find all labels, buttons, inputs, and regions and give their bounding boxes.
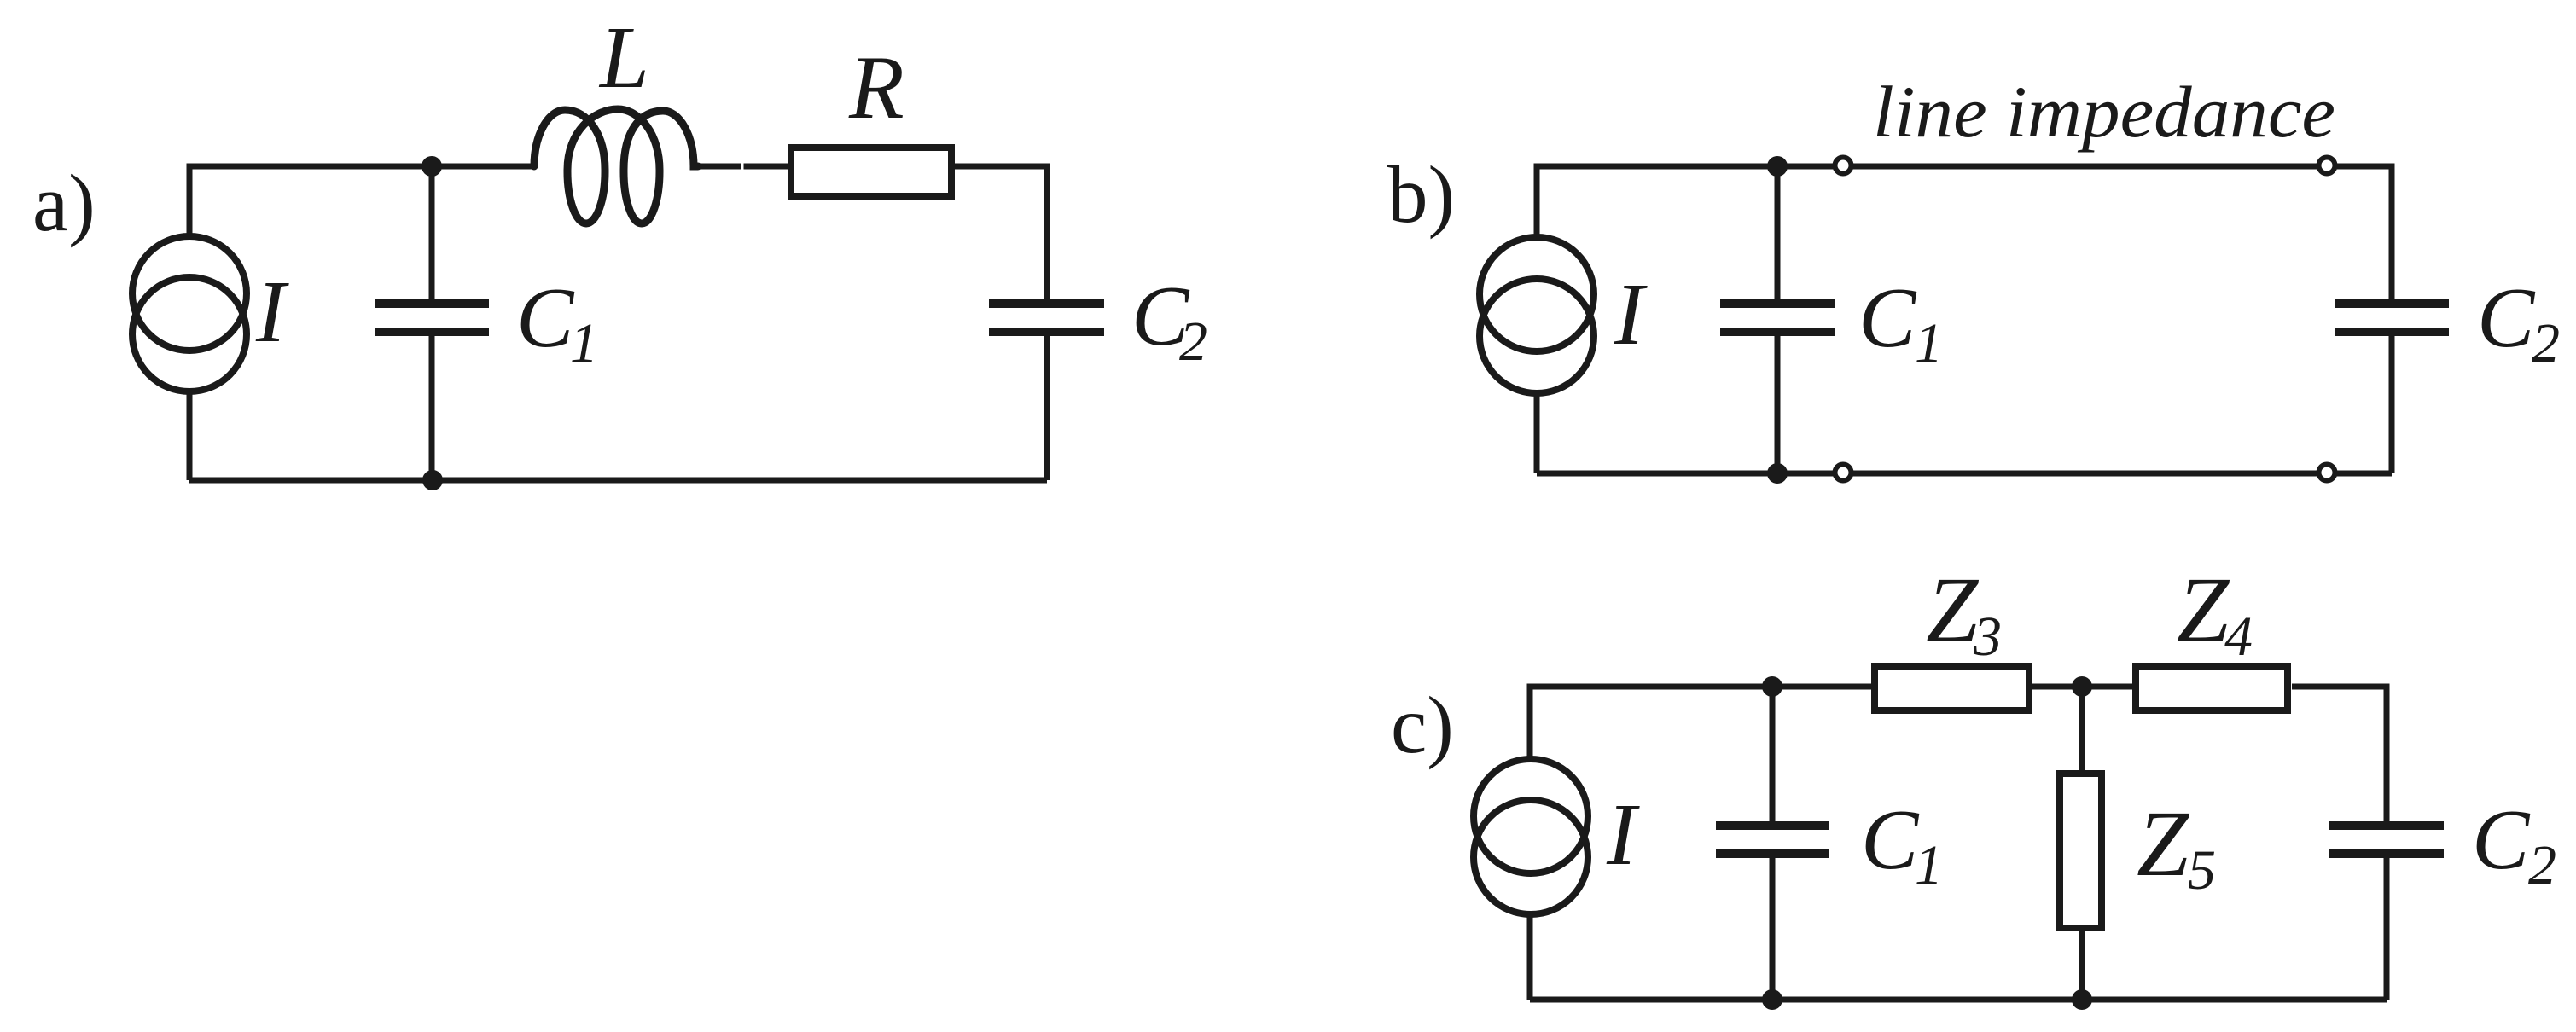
svg-text:3: 3	[1973, 606, 2002, 668]
wire c: Z5 to bottom rail	[2079, 931, 2085, 1000]
capacitor C1 (b) bottom lead	[1775, 336, 1781, 473]
wire a: inductor to resistor	[698, 164, 791, 170]
resistor Z4 (c)	[2136, 666, 2288, 710]
capacitor C1 (a) top lead	[429, 166, 435, 299]
node mid (c)	[2072, 676, 2092, 697]
svg-text:Z: Z	[2137, 791, 2190, 896]
wire c: Z4 to C2 corner	[2292, 687, 2387, 821]
capacitor C2 (a) plates	[989, 304, 1104, 332]
svg-text:1: 1	[570, 312, 598, 374]
svg-text:I: I	[255, 263, 289, 361]
current source I (b)	[1480, 237, 1594, 393]
svg-text:Z: Z	[1926, 558, 1980, 662]
svg-text:R: R	[848, 38, 904, 137]
node top-left (c)	[1762, 676, 1782, 697]
svg-text:5: 5	[2188, 839, 2216, 902]
open terminal top-left (b)	[1835, 158, 1852, 174]
capacitor C1 (a) bottom lead	[429, 336, 435, 480]
current source I (c)	[1474, 759, 1588, 914]
wire b: bottom rail right	[2335, 471, 2392, 477]
svg-text:Z: Z	[2177, 558, 2230, 662]
resistor R (a)	[791, 148, 951, 196]
svg-text:C: C	[2477, 270, 2536, 365]
wire c: mid node down to Z5	[2079, 687, 2085, 770]
wire a: resistor to C2	[951, 166, 1047, 299]
svg-text:L: L	[598, 9, 649, 107]
svg-text:2: 2	[1179, 310, 1207, 373]
capacitor C1 (a) plates	[375, 304, 489, 332]
svg-text:C: C	[1858, 270, 1917, 365]
svg-text:I: I	[1614, 265, 1648, 363]
node bottom (b)	[1767, 463, 1788, 484]
wire c: node to Z3	[1772, 684, 1871, 690]
svg-text:2: 2	[2532, 312, 2560, 374]
capacitor C2 (b) bottom lead	[2389, 336, 2395, 473]
svg-text:C: C	[516, 270, 575, 365]
svg-text:a): a)	[32, 158, 96, 248]
node A bottom (a)	[422, 470, 443, 490]
svg-text:1: 1	[1915, 834, 1943, 896]
wire b: line top	[1851, 164, 2319, 170]
wire b: terminal to C2 corner	[2335, 166, 2392, 299]
svg-text:b): b)	[1387, 149, 1455, 240]
resistor Z3 (c)	[1875, 666, 2029, 710]
svg-text:4: 4	[2224, 606, 2253, 668]
capacitor C1 (b) top lead	[1775, 166, 1781, 299]
capacitor C1 (c) plates	[1716, 826, 1829, 854]
open terminal top-right (b)	[2319, 158, 2335, 174]
svg-text:2: 2	[2528, 834, 2556, 896]
wire a: node to inductor	[432, 164, 535, 170]
capacitor C2 (a) bottom lead	[1044, 336, 1050, 480]
wire b: node to left terminal	[1777, 164, 1835, 170]
resistor Z5 (c)	[2060, 774, 2102, 928]
capacitor C2 (b) plates	[2335, 304, 2449, 332]
node bottom-mid (c)	[2072, 989, 2092, 1010]
svg-text:I: I	[1606, 786, 1640, 884]
wire c: source bottom to bottom rail	[1527, 914, 1533, 1000]
wire c: top-left from source up and right to node	[1530, 687, 1772, 759]
wire b: bottom rail left	[1537, 471, 1835, 477]
wire b: bottom rail middle	[1851, 471, 2319, 477]
inductor L (a)	[534, 109, 698, 223]
capacitor C2 (c) bottom lead	[2384, 858, 2390, 1000]
svg-text:c): c)	[1391, 680, 1454, 770]
wire b: source bottom to bottom rail	[1534, 393, 1540, 473]
node bottom-left (c)	[1762, 989, 1782, 1010]
capacitor C2 (c) plates	[2329, 826, 2444, 854]
wire a: top-left from source up and right to node	[189, 166, 432, 236]
svg-text:1: 1	[1915, 312, 1943, 374]
capacitor C1 (c) top lead	[1770, 687, 1776, 821]
current source I (a)	[132, 236, 247, 391]
wire a: bottom rail	[189, 478, 1047, 484]
capacitor C1 (b) plates	[1720, 304, 1835, 332]
open terminal bottom-left (b)	[1835, 465, 1852, 481]
svg-text:C: C	[2472, 791, 2531, 887]
open terminal bottom-right (b)	[2319, 465, 2335, 481]
capacitor C1 (c) bottom lead	[1770, 858, 1776, 1000]
svg-text:C: C	[1861, 791, 1920, 887]
wire b: top-left from source up and right to node	[1537, 166, 1777, 237]
wire a: source bottom to bottom rail	[187, 391, 193, 480]
node A top (a)	[422, 156, 442, 177]
wire c: Z3 to mid node	[2032, 684, 2132, 690]
wire c: bottom rail	[1530, 997, 2387, 1003]
svg-text:line impedance: line impedance	[1873, 71, 2335, 153]
node top (b)	[1767, 156, 1788, 177]
